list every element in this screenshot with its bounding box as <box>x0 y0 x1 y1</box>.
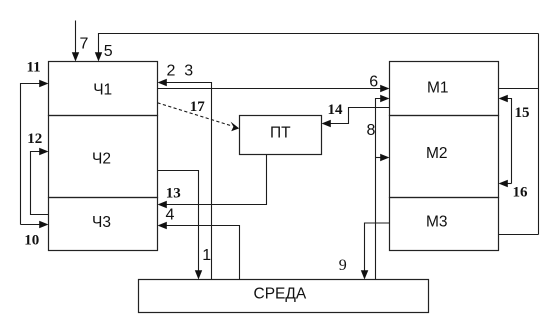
svg-text:12: 12 <box>27 131 42 147</box>
svg-text:17: 17 <box>190 99 206 115</box>
block Ч1 <box>49 62 158 116</box>
block Ч3 <box>49 198 158 251</box>
svg-text:3: 3 <box>184 63 193 80</box>
wire: М3 output to right loop <box>499 234 539 236</box>
wire 16 (into М2 right) <box>499 180 529 201</box>
svg-text:1: 1 <box>202 247 211 264</box>
svg-text:16: 16 <box>513 184 529 200</box>
svg-text:М2: М2 <box>426 145 448 162</box>
wire 8 (from СРЕДА up into М1 and М2 left) <box>367 95 390 280</box>
svg-text:М1: М1 <box>427 79 449 96</box>
svg-text:10: 10 <box>24 232 39 248</box>
wire 2 3 (from СРЕДА up into Ч1 right) <box>158 63 212 280</box>
block ПТ <box>240 116 322 155</box>
block М2 <box>390 116 499 198</box>
wire 6 (Ч1 right out into М1 left) <box>158 74 390 93</box>
svg-text:8: 8 <box>367 122 376 139</box>
block М3 <box>390 198 499 251</box>
svg-text:9: 9 <box>339 257 347 274</box>
wire 7 (into Ч1 top) <box>72 21 89 62</box>
svg-text:14: 14 <box>328 102 344 118</box>
block Ч2 <box>49 116 158 198</box>
svg-text:7: 7 <box>80 36 89 53</box>
svg-text:4: 4 <box>166 206 175 223</box>
wire 15 (into М1 right) <box>499 95 530 184</box>
svg-text:ПТ: ПТ <box>270 124 291 141</box>
svg-text:15: 15 <box>515 105 530 121</box>
svg-text:Ч1: Ч1 <box>93 82 112 99</box>
wire 12 (Ч3 left out, into Ч2 left) <box>27 131 48 215</box>
svg-text:11: 11 <box>27 60 41 76</box>
wire 1 (Ч2 right out into СРЕДА top) <box>158 171 212 280</box>
wire 17 (Ч1 right out, dashed diagonal into ПТ left) <box>158 99 240 131</box>
svg-text:Ч3: Ч3 <box>92 214 111 231</box>
svg-text:5: 5 <box>104 43 113 60</box>
svg-text:СРЕДА: СРЕДА <box>254 286 307 303</box>
wire 4 (from СРЕДА up into Ч3 right) <box>158 206 240 279</box>
wire 5 (М1/М3 right loop into Ч1 top) <box>95 34 539 62</box>
svg-text:М3: М3 <box>426 214 448 231</box>
block М1 <box>390 62 499 116</box>
svg-text:Ч2: Ч2 <box>92 151 111 168</box>
svg-text:6: 6 <box>369 74 378 91</box>
wire 14 (М1 left out into ПТ right) <box>322 102 390 127</box>
wire 10 (into Ч3 left) <box>21 221 49 249</box>
block СРЕДА <box>139 280 429 313</box>
svg-text:2: 2 <box>167 63 176 80</box>
wire 13 (ПТ bottom out into Ч3 right) <box>158 155 267 209</box>
wire: right outer vertical <box>538 34 540 235</box>
wire 11 (into Ч1 left) <box>21 60 49 225</box>
wire: М1 output to right loop <box>499 88 539 90</box>
svg-text:13: 13 <box>166 186 181 202</box>
wire 9 (М3 left out into СРЕДА top) <box>339 223 390 280</box>
